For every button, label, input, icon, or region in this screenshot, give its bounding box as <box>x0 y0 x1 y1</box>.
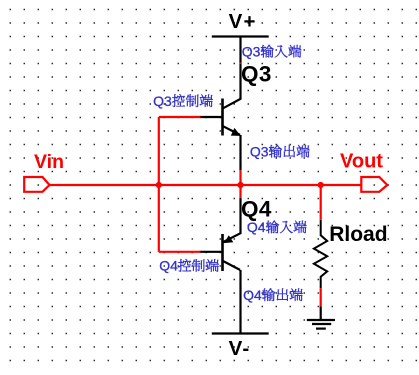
svg-text:Q4: Q4 <box>243 287 262 303</box>
svg-text:V-: V- <box>229 337 251 360</box>
svg-text:Q3: Q3 <box>153 93 172 109</box>
svg-text:V+: V+ <box>229 10 257 33</box>
svg-text:Vout: Vout <box>340 151 383 173</box>
svg-text:Q4: Q4 <box>247 219 266 235</box>
svg-text:Q3: Q3 <box>242 43 261 59</box>
svg-text:Q3: Q3 <box>241 61 272 86</box>
svg-text:Q4: Q4 <box>159 258 178 274</box>
svg-text:Q4: Q4 <box>241 196 272 221</box>
svg-text:Rload: Rload <box>329 223 387 246</box>
svg-text:Q3: Q3 <box>250 143 269 159</box>
svg-text:Vin: Vin <box>34 151 64 173</box>
